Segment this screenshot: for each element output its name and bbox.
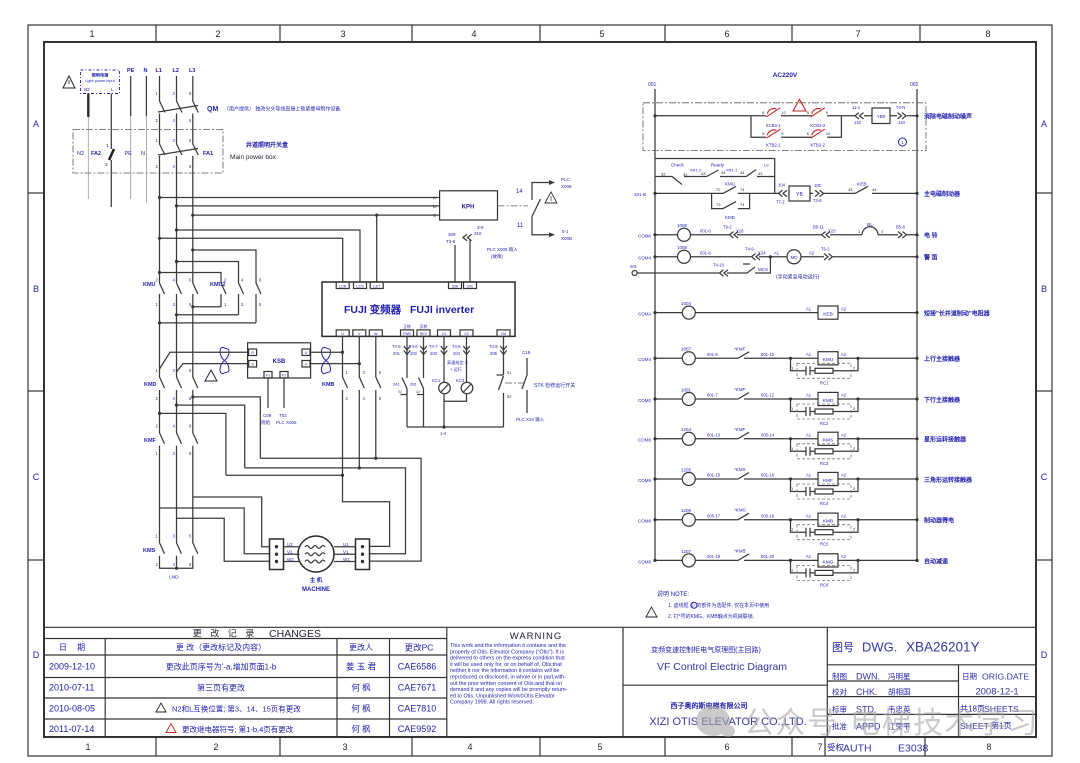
svg-text:out the prior written consent: out the prior written consent of Otis;an… <box>450 681 562 687</box>
svg-text:FA1: FA1 <box>203 151 213 157</box>
svg-text:ed to Otis. Unpublished: ed to Otis. Unpublished Work©Otis Elevat… <box>450 692 555 699</box>
change row 4 (red) <box>49 724 436 734</box>
wire check row loop <box>655 159 775 194</box>
svg-text:2009-12-10: 2009-12-10 <box>49 662 95 672</box>
svg-text:KPH: KPH <box>462 205 475 211</box>
svg-text:KSB: KSB <box>273 359 286 365</box>
svg-text:001-13: 001-13 <box>707 433 721 438</box>
svg-text:104: 104 <box>778 183 786 188</box>
svg-text:11: 11 <box>517 223 524 229</box>
svg-text:XR1-1: XR1-1 <box>726 168 738 173</box>
svg-text:X28: X28 <box>736 229 744 234</box>
svg-text:RC3: RC3 <box>820 461 829 466</box>
ground bus LND <box>160 561 193 569</box>
svg-text:KMG: KMG <box>823 559 834 565</box>
svg-text:reproduced or disclosed, in wh: reproduced or disclosed, in whole or in … <box>450 675 566 681</box>
svg-text:CAE7671: CAE7671 <box>398 683 437 693</box>
svg-text:B5-11: B5-11 <box>813 225 825 230</box>
chevron out YB <box>815 190 824 196</box>
svg-text:COMA: COMA <box>638 312 652 317</box>
svg-text:PLC X005: PLC X005 <box>276 420 297 425</box>
svg-text:Main power box: Main power box <box>230 154 277 161</box>
svg-text:校对: 校对 <box>832 687 847 697</box>
svg-text:1205: 1205 <box>681 467 692 472</box>
snubber RC5 <box>789 518 792 521</box>
svg-text:52: 52 <box>507 394 512 399</box>
svg-text:COM8: COM8 <box>638 438 651 443</box>
svg-text:日 期: 日 期 <box>59 643 89 652</box>
svg-text:X00B: X00B <box>561 236 572 241</box>
svg-text:32: 32 <box>661 172 666 177</box>
svg-text:RC1: RC1 <box>820 380 829 385</box>
warning triangle small <box>545 192 557 203</box>
svg-text:205: 205 <box>490 351 498 356</box>
chevron X28 <box>730 232 739 238</box>
svg-text:V: V <box>305 363 308 367</box>
svg-text:F2: F2 <box>282 374 286 378</box>
svg-text:AC220V: AC220V <box>773 72 798 79</box>
zone ticks left <box>28 193 44 560</box>
svg-text:T6-2: T6-2 <box>821 247 830 252</box>
svg-text:ORIG.DATE: ORIG.DATE <box>982 672 1029 682</box>
zone numbers top <box>89 29 990 39</box>
svg-text:A1: A1 <box>806 433 812 438</box>
svg-text:C09: C09 <box>263 413 272 418</box>
svg-text:Check: Check <box>671 163 685 168</box>
svg-text:制动器得电: 制动器得电 <box>924 517 954 525</box>
svg-text:A1: A1 <box>806 513 812 518</box>
svg-text:YB: YB <box>796 192 803 198</box>
zone letters left <box>33 119 40 660</box>
svg-text:YB0: YB0 <box>877 114 886 119</box>
wire KSB S <box>177 364 249 372</box>
svg-text:10C: 10C <box>814 183 822 188</box>
svg-text:D: D <box>33 650 40 660</box>
svg-text:KMD: KMD <box>725 215 736 220</box>
svg-text:2010-08-05: 2010-08-05 <box>49 704 95 714</box>
svg-text:201: 201 <box>393 351 401 356</box>
svg-text:T4-5: T4-5 <box>392 344 401 349</box>
middle title box <box>623 627 827 737</box>
svg-text:公众号·电梯技术学习: 公众号·电梯技术学习 <box>744 707 1039 740</box>
terminal block right <box>356 539 370 570</box>
brake coil YB <box>789 186 810 201</box>
wire L2 top <box>176 76 178 97</box>
svg-text:C: C <box>1041 472 1048 482</box>
svg-text:44: 44 <box>740 170 745 175</box>
svg-text:N: N <box>144 68 148 74</box>
svg-text:T4-7: T4-7 <box>429 344 438 349</box>
svg-text:309: 309 <box>448 232 456 237</box>
svg-text:FA2: FA2 <box>91 151 101 157</box>
svg-text:delivered to others on the exp: delivered to others on the express condi… <box>450 656 565 662</box>
svg-text:T7-2: T7-2 <box>776 200 785 205</box>
warning triangle note 1 <box>63 76 75 88</box>
svg-text:更 改 记 录: 更 改 记 录 <box>193 628 258 639</box>
svg-text:RC2: RC2 <box>820 421 829 426</box>
plc output circle 1005 <box>678 250 691 263</box>
svg-text:胡相国: 胡相国 <box>888 687 911 697</box>
svg-text:001: 001 <box>630 264 638 269</box>
contact KEB row2 <box>855 186 868 193</box>
buzzer MD <box>787 250 801 264</box>
svg-text:COM8: COM8 <box>638 559 651 564</box>
svg-text:(手动紧急电动运行): (手动紧急电动运行) <box>776 274 820 281</box>
svg-text:2: 2 <box>105 162 108 168</box>
wire PE <box>130 76 132 116</box>
svg-text:*KMF: *KMF <box>734 427 746 432</box>
svg-text:FWD: FWD <box>403 332 412 336</box>
brake unit KSB box <box>248 343 311 378</box>
svg-text:X2: X2 <box>464 332 468 336</box>
wire join row U1 <box>226 474 343 476</box>
svg-text:142: 142 <box>854 120 862 125</box>
svg-text:星形运转接触器: 星形运转接触器 <box>924 436 967 444</box>
zone ticks bottom <box>156 737 792 756</box>
svg-text:demand it and any copies will: demand it and any copies will be promptl… <box>450 687 568 693</box>
svg-text:PE: PE <box>127 68 135 74</box>
wire N2 <box>87 94 89 118</box>
svg-text:图号: 图号 <box>832 641 854 654</box>
chevron X24 <box>752 254 761 260</box>
svg-text:自动减速: 自动减速 <box>924 557 948 565</box>
plc output circle 1204 <box>682 432 695 445</box>
svg-text:更改此页序号为'-a,增加页面1-b: 更改此页序号为'-a,增加页面1-b <box>166 662 277 672</box>
wire row1 <box>655 115 917 117</box>
wire KSB V <box>310 363 359 365</box>
contact KMF aux <box>732 352 749 359</box>
relay coil KMU <box>818 352 838 365</box>
wire taps to KMU2 <box>191 248 194 251</box>
switch MCS <box>743 264 757 273</box>
wire KPH output dashdot <box>498 205 529 207</box>
svg-text:T02: T02 <box>279 413 287 418</box>
svg-text:X008: X008 <box>561 184 572 189</box>
svg-text:204: 204 <box>453 351 461 356</box>
contact KTB2-2 <box>807 129 831 147</box>
svg-text:COM8: COM8 <box>638 519 651 524</box>
bus control common <box>407 426 504 428</box>
svg-text:001-12: 001-12 <box>761 393 775 398</box>
wire KMF to KMS and motor <box>160 449 193 539</box>
wire KSB F1 F2 <box>268 378 284 408</box>
svg-text:A1: A1 <box>806 352 812 357</box>
svg-text:D: D <box>1041 650 1048 660</box>
svg-text:姜 玉 君: 姜 玉 君 <box>346 662 377 672</box>
svg-text:*KMF: *KMF <box>734 387 746 392</box>
svg-text:MACHINE: MACHINE <box>302 587 330 593</box>
svg-text:A1: A1 <box>806 307 812 312</box>
svg-text:1207: 1207 <box>681 549 692 554</box>
snubber RC6 <box>789 559 792 562</box>
svg-text:This work and the information: This work and the information it contain… <box>450 643 566 649</box>
svg-text:001-10: 001-10 <box>761 352 775 357</box>
wires block to motor <box>284 547 300 562</box>
warning triangle note <box>646 607 657 617</box>
svg-text:1005: 1005 <box>677 245 688 250</box>
svg-text:冯明星: 冯明星 <box>888 672 911 681</box>
svg-text:AUTH: AUTH <box>843 743 872 755</box>
svg-text:上行主接触器: 上行主接触器 <box>924 355 961 363</box>
wire L2 to inverter <box>175 228 178 231</box>
svg-text:001: 001 <box>648 82 657 88</box>
svg-text:001-19: 001-19 <box>707 554 721 559</box>
wire FWD col <box>401 336 408 427</box>
svg-text:2A1: 2A1 <box>393 383 400 387</box>
plc output circle 1001 <box>682 393 695 406</box>
svg-text:更改PC: 更改PC <box>405 643 434 653</box>
svg-text:A1: A1 <box>806 393 812 398</box>
svg-text:101-B: 101-B <box>634 192 646 197</box>
wire L3 down <box>192 164 194 277</box>
contact ready XR1-1 <box>746 170 756 177</box>
chevron B5-8 <box>898 232 907 238</box>
svg-text:*KMB: *KMB <box>734 548 746 553</box>
svg-text:U: U <box>341 332 344 336</box>
svg-text:6: 6 <box>724 29 729 39</box>
wire join row V1 <box>245 468 406 554</box>
svg-text:STK 检修运行开关: STK 检修运行开关 <box>534 382 575 389</box>
svg-text:A1: A1 <box>774 251 780 256</box>
svg-text:(故障): (故障) <box>491 253 503 260</box>
svg-text:KMU: KMU <box>823 357 834 363</box>
svg-text:001-6: 001-6 <box>700 229 711 234</box>
svg-text:BL: BL <box>867 222 873 228</box>
svg-text:FUJI inverter: FUJI inverter <box>410 304 474 316</box>
changes table frame <box>44 627 1036 737</box>
svg-text:143: 143 <box>898 120 906 125</box>
svg-text:受权: 受权 <box>827 743 845 753</box>
svg-text:203: 203 <box>430 351 438 356</box>
svg-text:KCB2-1: KCB2-1 <box>766 123 782 128</box>
auth cell bottom band <box>825 737 925 756</box>
switch STK <box>522 358 527 413</box>
contact KMF aux <box>732 432 749 439</box>
svg-text:KMS: KMS <box>823 438 833 444</box>
svg-text:5: 5 <box>597 742 602 752</box>
svg-text:1004: 1004 <box>681 301 692 306</box>
svg-text:COM6: COM6 <box>638 234 651 239</box>
svg-text:更改人: 更改人 <box>349 642 373 652</box>
relay coil KMB <box>818 513 838 526</box>
svg-text:制图: 制图 <box>832 671 847 681</box>
svg-text:10: 10 <box>826 131 831 136</box>
svg-text:A2: A2 <box>841 433 847 438</box>
contact KMS aux <box>732 473 749 480</box>
zone ticks top <box>156 25 920 42</box>
svg-text:1204: 1204 <box>681 427 692 432</box>
svg-text:（用户提供） 独改尖头导线直接上锁紧螺母制作设备.: （用户提供） 独改尖头导线直接上锁紧螺母制作设备. <box>224 106 342 113</box>
svg-text:反转: 反转 <box>420 324 428 329</box>
svg-text:1007: 1007 <box>681 347 692 352</box>
svg-text:310: 310 <box>474 231 482 236</box>
warning box <box>622 627 624 737</box>
svg-text:CAE6586: CAE6586 <box>398 662 437 672</box>
svg-text:XBA26201Y: XBA26201Y <box>906 640 980 655</box>
svg-text:8: 8 <box>986 742 991 752</box>
svg-text:KTB2-1: KTB2-1 <box>766 143 781 148</box>
svg-text:1: 1 <box>89 29 94 39</box>
relay coil KMS <box>818 432 838 445</box>
wire L3 top <box>192 76 194 97</box>
wire KMU out down <box>160 299 193 373</box>
snubber RC4 <box>789 477 792 480</box>
signature rows <box>827 665 1036 737</box>
svg-text:C19: C19 <box>522 350 531 355</box>
wire KSB U <box>310 351 343 353</box>
svg-text:neither it nor the information: neither it nor the information it contai… <box>450 668 559 674</box>
svg-text:绕组: 绕组 <box>261 419 270 426</box>
svg-text:*KMS: *KMS <box>734 467 746 472</box>
svg-text:KMF: KMF <box>144 438 157 444</box>
svg-text:1006: 1006 <box>677 223 688 228</box>
plc output circle 1206 <box>682 513 695 526</box>
svg-text:V: V <box>358 332 361 336</box>
fan symbol right <box>322 347 331 373</box>
svg-text:何 枫: 何 枫 <box>351 724 371 734</box>
svg-text:C: C <box>433 213 436 218</box>
svg-text:001-20: 001-20 <box>761 554 775 559</box>
wire L1 to inverter <box>158 237 161 240</box>
svg-text:2B1: 2B1 <box>410 383 417 387</box>
svg-text:井道照明开关盒: 井道照明开关盒 <box>246 141 289 149</box>
plc output circle 1207 <box>682 554 695 567</box>
svg-text:002: 002 <box>910 82 919 88</box>
svg-text:MD: MD <box>791 255 799 260</box>
chevron T4-10 <box>720 270 729 276</box>
svg-text:消除电磁制动噪声: 消除电磁制动噪声 <box>924 113 972 121</box>
motor MACHINE <box>298 536 334 572</box>
svg-text:B: B <box>1041 284 1047 294</box>
zone letters right <box>1041 119 1048 660</box>
svg-text:PLC: PLC <box>561 177 571 182</box>
relay KPH box <box>440 191 498 220</box>
svg-text:电 铃: 电 铃 <box>924 232 939 240</box>
svg-text:*KMG: *KMG <box>734 508 747 513</box>
svg-text:CM: CM <box>501 332 507 336</box>
svg-text:A2: A2 <box>841 513 847 518</box>
snubber RC1 <box>789 357 792 360</box>
contact KCB2-2 <box>807 108 829 128</box>
svg-text:KMD: KMD <box>823 398 834 404</box>
svg-text:CHK.: CHK. <box>856 687 878 697</box>
svg-text:51: 51 <box>507 370 512 375</box>
svg-text:4: 4 <box>467 742 472 752</box>
change row 1 <box>49 662 436 672</box>
wire N <box>145 76 147 116</box>
svg-text:N: N <box>141 151 145 157</box>
svg-text:KEB: KEB <box>823 312 833 318</box>
svg-text:KMF: KMF <box>823 478 833 484</box>
svg-text:说明 NOTE:: 说明 NOTE: <box>657 590 689 598</box>
relay coil KMG <box>818 554 838 567</box>
svg-text:警 笛: 警 笛 <box>923 254 938 262</box>
bell BL <box>857 227 884 235</box>
svg-text:A2: A2 <box>841 554 847 559</box>
light power input box <box>81 70 120 94</box>
svg-text:it will be used only for, or o: it will be used only for, or on behalf o… <box>450 662 562 668</box>
warning triangle row4 red <box>166 724 176 733</box>
inverter bottom terminals <box>336 324 510 336</box>
svg-text:VF Control Electric Diagram: VF Control Electric Diagram <box>657 661 787 673</box>
svg-text:A2: A2 <box>841 393 847 398</box>
svg-text:N2和L互换位置; 第3、14、15页有更改: N2和L互换位置; 第3、14、15页有更改 <box>172 704 301 714</box>
relay coil KEB <box>818 306 838 319</box>
wire KMD out stairs <box>160 395 193 428</box>
terminal block left <box>270 539 284 570</box>
svg-text:1. 虚线框 ② 的部件为选配件, 仅在本页中使用: 1. 虚线框 ② 的部件为选配件, 仅在本页中使用 <box>668 602 769 609</box>
svg-text:X24: X24 <box>758 251 766 256</box>
wire L2 down <box>176 164 178 277</box>
svg-text:2010-07-11: 2010-07-11 <box>49 683 94 693</box>
wire 309 to inverter 30A <box>454 245 456 282</box>
main power box dash-dot <box>73 130 223 174</box>
svg-text:2: 2 <box>213 742 218 752</box>
zone numbers bottom <box>85 742 991 752</box>
svg-text:1206: 1206 <box>681 508 692 513</box>
svg-text:L2/S: L2/S <box>356 284 364 288</box>
svg-text:L3/T: L3/T <box>373 284 381 288</box>
svg-text:T4-9: T4-9 <box>489 344 498 349</box>
svg-text:74: 74 <box>740 202 745 207</box>
svg-text:11-1: 11-1 <box>852 105 861 110</box>
contact KMD aux branch row2 <box>712 193 750 208</box>
svg-text:KEB: KEB <box>857 182 867 188</box>
svg-text:KMS: KMS <box>143 548 156 554</box>
snubber RC3 <box>789 437 792 440</box>
svg-text:30A: 30A <box>452 284 459 288</box>
svg-text:001-8: 001-8 <box>700 251 711 256</box>
svg-text:N2: N2 <box>84 87 90 92</box>
svg-text:A1: A1 <box>806 473 812 478</box>
svg-text:1: 1 <box>106 143 109 149</box>
svg-text:KMU: KMU <box>143 282 156 288</box>
svg-text:COM0: COM0 <box>638 398 651 403</box>
svg-text:X23: X23 <box>828 229 836 234</box>
relay coil KMD <box>818 392 838 405</box>
wire CM col <box>497 336 504 427</box>
inverter top terminals <box>336 282 476 289</box>
svg-text:PE: PE <box>125 151 133 157</box>
svg-text:L1: L1 <box>156 68 162 74</box>
svg-text:43: 43 <box>758 171 763 176</box>
svg-text:COM4: COM4 <box>638 357 651 362</box>
svg-text:72: 72 <box>716 202 721 207</box>
svg-text:B: B <box>33 284 39 294</box>
contact KPH output 14/11 <box>532 183 550 235</box>
svg-text:KTB2-2: KTB2-2 <box>811 143 826 148</box>
svg-text:2: 2 <box>215 29 220 39</box>
svg-text:T3-8: T3-8 <box>813 198 822 203</box>
svg-text:KMB: KMB <box>823 519 833 525</box>
svg-text:RC5: RC5 <box>820 542 829 547</box>
svg-text:Light power input: Light power input <box>85 78 116 83</box>
contact KMB aux <box>732 554 749 561</box>
svg-text:5: 5 <box>599 29 604 39</box>
svg-text:A2: A2 <box>809 251 815 256</box>
svg-text:RC6: RC6 <box>820 582 829 587</box>
svg-text:3-8: 3-8 <box>477 225 484 230</box>
plc output circle 1007 <box>682 352 695 365</box>
svg-text:第三页有更改: 第三页有更改 <box>197 683 245 693</box>
wire row1 branch <box>751 116 841 137</box>
wire join row W1 <box>260 458 421 561</box>
contact KTB2-1 <box>762 129 784 147</box>
plc output circle 1205 <box>682 473 695 486</box>
svg-text:MCS: MCS <box>758 267 768 272</box>
svg-text:B5-8: B5-8 <box>896 225 906 230</box>
warning triangle row3 <box>156 703 166 712</box>
